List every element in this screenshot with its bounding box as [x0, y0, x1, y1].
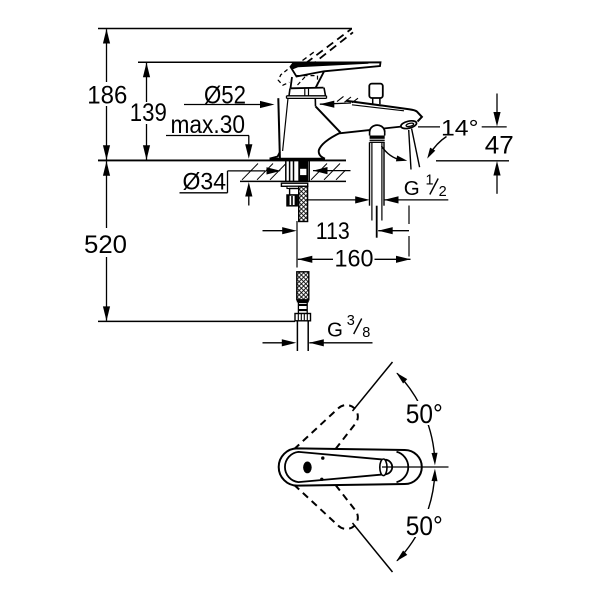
flex hose upper (braided)	[299, 186, 308, 221]
handle outer outline (top view)	[279, 448, 422, 485]
dimension 47 lower arrow	[436, 160, 509, 162]
dimension 14 deg side ticks	[418, 126, 440, 128]
dimension 520 vertical line	[106, 161, 108, 228]
svg-text:2: 2	[439, 184, 447, 200]
svg-text:G: G	[404, 177, 420, 200]
rotation ray upper	[353, 362, 393, 411]
mounting shank bars	[285, 161, 287, 182]
hose end nut G3/8	[295, 314, 311, 321]
svg-text:14°: 14°	[441, 115, 479, 140]
dimension 113 arrows	[263, 230, 284, 232]
svg-text:50°: 50°	[406, 511, 443, 541]
flex hose lower (braided)	[297, 272, 309, 300]
handle lever wedge (top view)	[285, 452, 392, 482]
svg-text:1: 1	[426, 173, 434, 189]
wire 520 bottom reference line (hose end)	[98, 320, 295, 322]
dimension 186 vertical line	[106, 29, 108, 82]
rotation arc lower	[397, 472, 435, 561]
wire 139 reference line (lever height)	[138, 61, 377, 63]
shower hose nipple	[370, 125, 385, 132]
svg-text:520: 520	[84, 231, 127, 259]
stud lower	[290, 189, 301, 196]
svg-text:Ø34: Ø34	[183, 169, 227, 196]
svg-text:160: 160	[335, 245, 374, 272]
faucet body	[278, 98, 280, 158]
svg-text:113: 113	[316, 218, 350, 245]
svg-text:G: G	[327, 318, 343, 341]
handle right cap inner line	[397, 452, 409, 482]
handle logo blob	[303, 462, 312, 474]
countertop hatching	[242, 164, 258, 180]
extension line faucet centre	[296, 221, 298, 268]
water stream angle lines	[409, 130, 411, 170]
dimension 139 vertical line	[146, 63, 148, 102]
label 50 deg lower	[403, 509, 446, 537]
hose ferrule	[297, 300, 309, 303]
hose end pipe	[296, 321, 298, 351]
diverter knob	[369, 84, 383, 98]
svg-text:139: 139	[130, 99, 167, 127]
mounting washer	[281, 183, 307, 186]
rotation arc upper	[397, 373, 435, 462]
angle arc arrow left	[382, 146, 402, 160]
wire countertop top line	[98, 159, 346, 161]
compression fitting	[287, 195, 297, 206]
extension line outlet (dashed)	[408, 206, 410, 225]
svg-text:3: 3	[347, 313, 355, 329]
dimension G 3/8 arrows	[263, 342, 284, 344]
wire countertop bottom line	[240, 180, 346, 182]
dimension Ø34 leader	[180, 192, 228, 194]
cartridge collar	[289, 88, 290, 96]
dimension 47 upper arrow	[496, 94, 498, 114]
spout	[346, 101, 422, 122]
lever blade	[291, 62, 381, 76]
handle dots	[321, 456, 324, 459]
threaded stud	[298, 161, 308, 182]
label 50 deg upper	[403, 401, 446, 425]
phantom raised lever (dash-dot)	[306, 29, 352, 63]
dimension G 1/2 arrows	[296, 199, 357, 201]
lever back (phantom)	[278, 70, 289, 86]
phantom handle rotated up (dashed)	[288, 405, 357, 477]
dimension 160 line	[298, 258, 333, 260]
rotation ray lower	[353, 523, 393, 572]
svg-text:8: 8	[362, 325, 370, 341]
phantom handle rotated down (dashed)	[288, 457, 357, 529]
lever neck	[291, 77, 293, 88]
diverter knob (top view)	[380, 459, 387, 476]
spout aerator outlet	[400, 119, 417, 129]
shower hose pipe	[369, 142, 371, 205]
svg-text:47: 47	[485, 132, 514, 160]
dimension max.30 leader	[166, 135, 249, 137]
svg-text:50°: 50°	[406, 399, 443, 429]
svg-text:186: 186	[87, 82, 127, 110]
angle arc arrow right	[430, 137, 447, 155]
dimension Ø52 leader	[184, 104, 262, 106]
wire top reference line (raised lever height)	[98, 28, 352, 30]
cartridge hidden outline (dashed)	[297, 75, 318, 77]
handle centreline	[382, 466, 449, 468]
spout junction ticks	[337, 96, 344, 101]
